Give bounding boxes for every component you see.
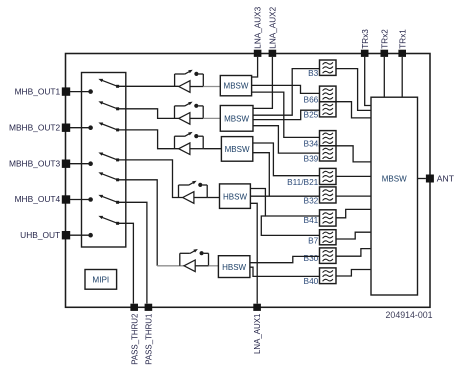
svg-text:B32: B32 bbox=[304, 196, 319, 206]
amp U5 bypass switch blade bbox=[190, 249, 198, 254]
pad LNA_AUX1 bbox=[253, 304, 261, 311]
pole contact dot 4 bbox=[88, 197, 93, 202]
band switch MBSW1 box bbox=[220, 76, 251, 96]
amp U2 LNA triangle bbox=[179, 113, 190, 125]
pole contact dot 3 bbox=[88, 161, 93, 166]
amp U5 bypass top wire left bbox=[180, 252, 190, 254]
wire blade7 to PASS_THRU2 bbox=[119, 223, 133, 303]
wire amp U5 base to bypass leg bbox=[195, 265, 208, 267]
wire B30 to antenna MBSW bbox=[336, 249, 371, 257]
svg-text:TRx1: TRx1 bbox=[398, 29, 407, 49]
amp U1 bypass switch contact dot bbox=[194, 72, 198, 76]
pad TRx2 bbox=[381, 50, 389, 57]
wire TRx1 to MBSW bbox=[401, 57, 403, 97]
switch matrix box SW1 bbox=[82, 73, 126, 248]
filter B30 bbox=[320, 248, 337, 264]
filter B11/B21 bbox=[320, 168, 337, 184]
MIPI block bbox=[85, 270, 117, 290]
amp U3 bypass right leg bbox=[202, 136, 204, 149]
switch blade 6 bbox=[98, 195, 119, 204]
svg-text:B11/B21: B11/B21 bbox=[287, 177, 319, 187]
amp U4 bypass top wire right bbox=[202, 184, 207, 186]
amp U5 bypass switch contact dot bbox=[200, 251, 204, 255]
wire blade3 to amp3 bbox=[119, 130, 179, 149]
wire amp U3 to band switch bbox=[203, 148, 221, 150]
svg-text:MBHB_OUT2: MBHB_OUT2 bbox=[9, 122, 61, 132]
switch blade 4 bbox=[98, 152, 119, 161]
switch blade 7 bbox=[98, 216, 119, 225]
filter B32 bbox=[320, 187, 337, 203]
svg-text:B39: B39 bbox=[304, 154, 319, 164]
wire B25 to MBSW2 bbox=[253, 110, 320, 119]
filter B40 bbox=[320, 268, 337, 284]
svg-text:LNA_AUX1: LNA_AUX1 bbox=[253, 314, 262, 354]
pad PASS_THRU2 bbox=[130, 304, 138, 311]
wire LNA_AUX1 to HBSW1 bbox=[250, 203, 257, 303]
band switch HBSW2 box bbox=[218, 256, 250, 278]
pad PASS_THRU1 bbox=[145, 304, 153, 311]
svg-text:TRx2: TRx2 bbox=[380, 29, 389, 49]
wire pad to pole 5 bbox=[70, 234, 90, 236]
wire MBSW2 to B39 bbox=[253, 126, 320, 153]
wire MBSW to ANT bbox=[418, 178, 426, 180]
pad TRx3 bbox=[361, 50, 369, 57]
amp U2 bypass switch contact dot bbox=[194, 104, 198, 108]
wire blade1 to amp1 bbox=[119, 85, 179, 87]
amp U2 bypass top wire left bbox=[175, 105, 185, 107]
wire blade4 to amp4 bbox=[119, 160, 183, 198]
amp U1 bypass top wire right bbox=[198, 73, 203, 75]
pad LNA_AUX2 bbox=[269, 50, 277, 57]
wire B34/B39 to antenna MBSW bbox=[336, 146, 371, 162]
svg-text:HBSW: HBSW bbox=[223, 192, 247, 201]
switch blade 5 bbox=[98, 172, 119, 181]
filter B34 bbox=[320, 131, 337, 146]
amp U2 bypass top wire right bbox=[198, 105, 203, 107]
wire amp5 output segment bbox=[157, 265, 184, 267]
wire HBSW1 to B41 bbox=[250, 189, 319, 217]
amp U5 bypass right leg bbox=[208, 253, 210, 265]
amp U1 bypass top wire left bbox=[175, 73, 185, 75]
band switch MBSW3 box bbox=[221, 137, 252, 162]
svg-text:B66: B66 bbox=[304, 94, 319, 104]
wire B41 branch to B7 bbox=[261, 216, 319, 235]
svg-text:MBSW: MBSW bbox=[225, 145, 250, 154]
svg-text:MBSW: MBSW bbox=[224, 82, 249, 91]
amp U1 bypass right leg bbox=[202, 74, 204, 87]
wire HBSW1 to B32 bbox=[250, 195, 319, 197]
pole contact dot 5 bbox=[88, 233, 93, 238]
band switch MBSW2 box bbox=[220, 106, 253, 132]
switch blade 1 bbox=[98, 79, 119, 88]
svg-text:B3: B3 bbox=[308, 68, 319, 78]
filter B41 bbox=[320, 210, 337, 226]
wire B3 to antenna MBSW bbox=[336, 69, 371, 111]
svg-text:B25: B25 bbox=[304, 110, 319, 120]
wire B66/B25 to antenna MBSW bbox=[336, 102, 371, 118]
wire pad to pole 3 bbox=[70, 163, 90, 165]
amp U5 bypass left leg bbox=[179, 253, 181, 265]
filter B66 bbox=[320, 86, 337, 102]
wire pad to pole 1 bbox=[70, 91, 90, 93]
band switch HBSW1 box bbox=[220, 184, 251, 209]
pad MHB_OUT4 bbox=[62, 195, 70, 203]
wire pad to pole 4 bbox=[70, 199, 90, 201]
svg-text:B30: B30 bbox=[304, 253, 319, 263]
svg-text:PASS_THRU2: PASS_THRU2 bbox=[130, 314, 139, 365]
wire TRx2 to MBSW bbox=[383, 57, 385, 97]
amp U3 LNA triangle bbox=[179, 143, 190, 155]
svg-text:UHB_OUT: UHB_OUT bbox=[20, 230, 60, 240]
svg-text:LNA_AUX3: LNA_AUX3 bbox=[254, 6, 263, 48]
svg-text:B34: B34 bbox=[304, 138, 319, 148]
wire HBSW2 to B40 bbox=[250, 267, 320, 276]
wire LNA_AUX2 to MBSW2 bbox=[253, 57, 272, 109]
wire amp U3 base to bypass leg bbox=[190, 148, 203, 150]
wire LNA_AUX3 to MBSW1 bbox=[252, 57, 258, 77]
svg-text:MHB_OUT1: MHB_OUT1 bbox=[15, 86, 61, 96]
wire amp U4 base to bypass leg bbox=[194, 197, 207, 199]
pad UHB_OUT bbox=[62, 231, 70, 239]
chip outline border bbox=[66, 54, 431, 308]
wire B11/B21 to antenna MBSW bbox=[336, 175, 371, 177]
amp U1 bypass left leg bbox=[174, 74, 176, 87]
svg-text:B7: B7 bbox=[308, 236, 319, 246]
svg-text:MBHB_OUT3: MBHB_OUT3 bbox=[9, 158, 61, 168]
svg-text:ANT: ANT bbox=[437, 174, 455, 184]
switch blade 2 bbox=[98, 101, 119, 110]
amp U4 bypass left leg bbox=[178, 185, 180, 198]
wire blade5 to amp5 corner bbox=[119, 180, 157, 266]
amp U3 bypass switch blade bbox=[185, 132, 193, 137]
svg-text:MBSW: MBSW bbox=[382, 174, 407, 183]
wire MBSW3 to B32 junction bbox=[253, 153, 269, 197]
amp U5 LNA triangle bbox=[184, 260, 195, 272]
wire B7 to antenna MBSW bbox=[336, 232, 371, 239]
amp U4 bypass top wire left bbox=[179, 184, 189, 186]
wire amp U1 base to bypass leg bbox=[190, 86, 203, 88]
wire B41 to antenna MBSW bbox=[336, 209, 371, 217]
amp U5 bypass top wire right bbox=[204, 252, 209, 254]
amp U3 bypass top wire left bbox=[175, 135, 185, 137]
pole contact dot 1 bbox=[88, 89, 93, 94]
pad TRx1 bbox=[398, 50, 406, 57]
wire B3 to MBSW2 bbox=[253, 69, 320, 116]
svg-text:PASS_THRU1: PASS_THRU1 bbox=[145, 314, 154, 365]
antenna switch MBSW box bbox=[371, 97, 418, 295]
filter B25 bbox=[320, 102, 337, 117]
pole contact dot 2 bbox=[88, 125, 93, 130]
wire blade6 to PASS_THRU1 bbox=[119, 202, 147, 303]
svg-text:MIPI: MIPI bbox=[92, 276, 109, 285]
svg-text:MHB_OUT4: MHB_OUT4 bbox=[15, 194, 61, 204]
wire B32 to antenna MBSW bbox=[336, 195, 371, 197]
filter B7 bbox=[320, 230, 337, 245]
svg-text:B40: B40 bbox=[304, 276, 319, 286]
filter B39 bbox=[320, 146, 337, 161]
amp U4 LNA triangle bbox=[183, 192, 194, 204]
pad ANT bbox=[426, 175, 434, 183]
wire amp U2 to band switch bbox=[203, 117, 220, 119]
amp U1 LNA triangle bbox=[179, 81, 190, 93]
wire MBSW3 to B11/B21 bbox=[253, 143, 320, 176]
svg-text:204914-001: 204914-001 bbox=[386, 310, 433, 320]
pad MHB_OUT1 bbox=[62, 87, 70, 95]
wire MBSW1 to B34 bbox=[252, 92, 320, 137]
amp U3 bypass switch contact dot bbox=[194, 134, 198, 138]
svg-text:HBSW: HBSW bbox=[222, 263, 246, 272]
wire amp U1 to band switch bbox=[203, 86, 220, 88]
amp U2 bypass switch blade bbox=[185, 102, 193, 107]
wire B40 to antenna MBSW bbox=[336, 270, 371, 277]
svg-text:LNA_AUX2: LNA_AUX2 bbox=[269, 6, 278, 48]
wire amp U5 to band switch bbox=[209, 265, 219, 267]
pad MBHB_OUT3 bbox=[62, 160, 70, 168]
amp U4 bypass switch blade bbox=[189, 181, 197, 186]
wire amp U2 base to bypass leg bbox=[190, 117, 203, 119]
amp U4 bypass switch contact dot bbox=[198, 183, 202, 187]
wire blade2 to amp2 bbox=[119, 109, 179, 119]
wire pad to pole 2 bbox=[70, 127, 90, 129]
amp U2 bypass right leg bbox=[202, 106, 204, 119]
svg-text:MBSW: MBSW bbox=[224, 114, 249, 123]
amp U1 bypass switch blade bbox=[185, 70, 193, 75]
wire B66 to MBSW1 bbox=[252, 85, 320, 93]
wire HBSW2 to B30 bbox=[250, 256, 320, 262]
filter B3 bbox=[320, 60, 337, 75]
pad LNA_AUX3 bbox=[254, 50, 262, 57]
amp U3 bypass left leg bbox=[174, 136, 176, 149]
svg-text:TRx3: TRx3 bbox=[361, 29, 370, 49]
wire amp U4 to band switch bbox=[207, 197, 219, 199]
wire TRx3 to MBSW bbox=[365, 57, 371, 106]
amp U3 bypass top wire right bbox=[198, 135, 203, 137]
amp U2 bypass left leg bbox=[174, 106, 176, 119]
amp U4 bypass right leg bbox=[206, 185, 208, 198]
pad MBHB_OUT2 bbox=[62, 124, 70, 132]
switch blade 3 bbox=[98, 122, 119, 131]
